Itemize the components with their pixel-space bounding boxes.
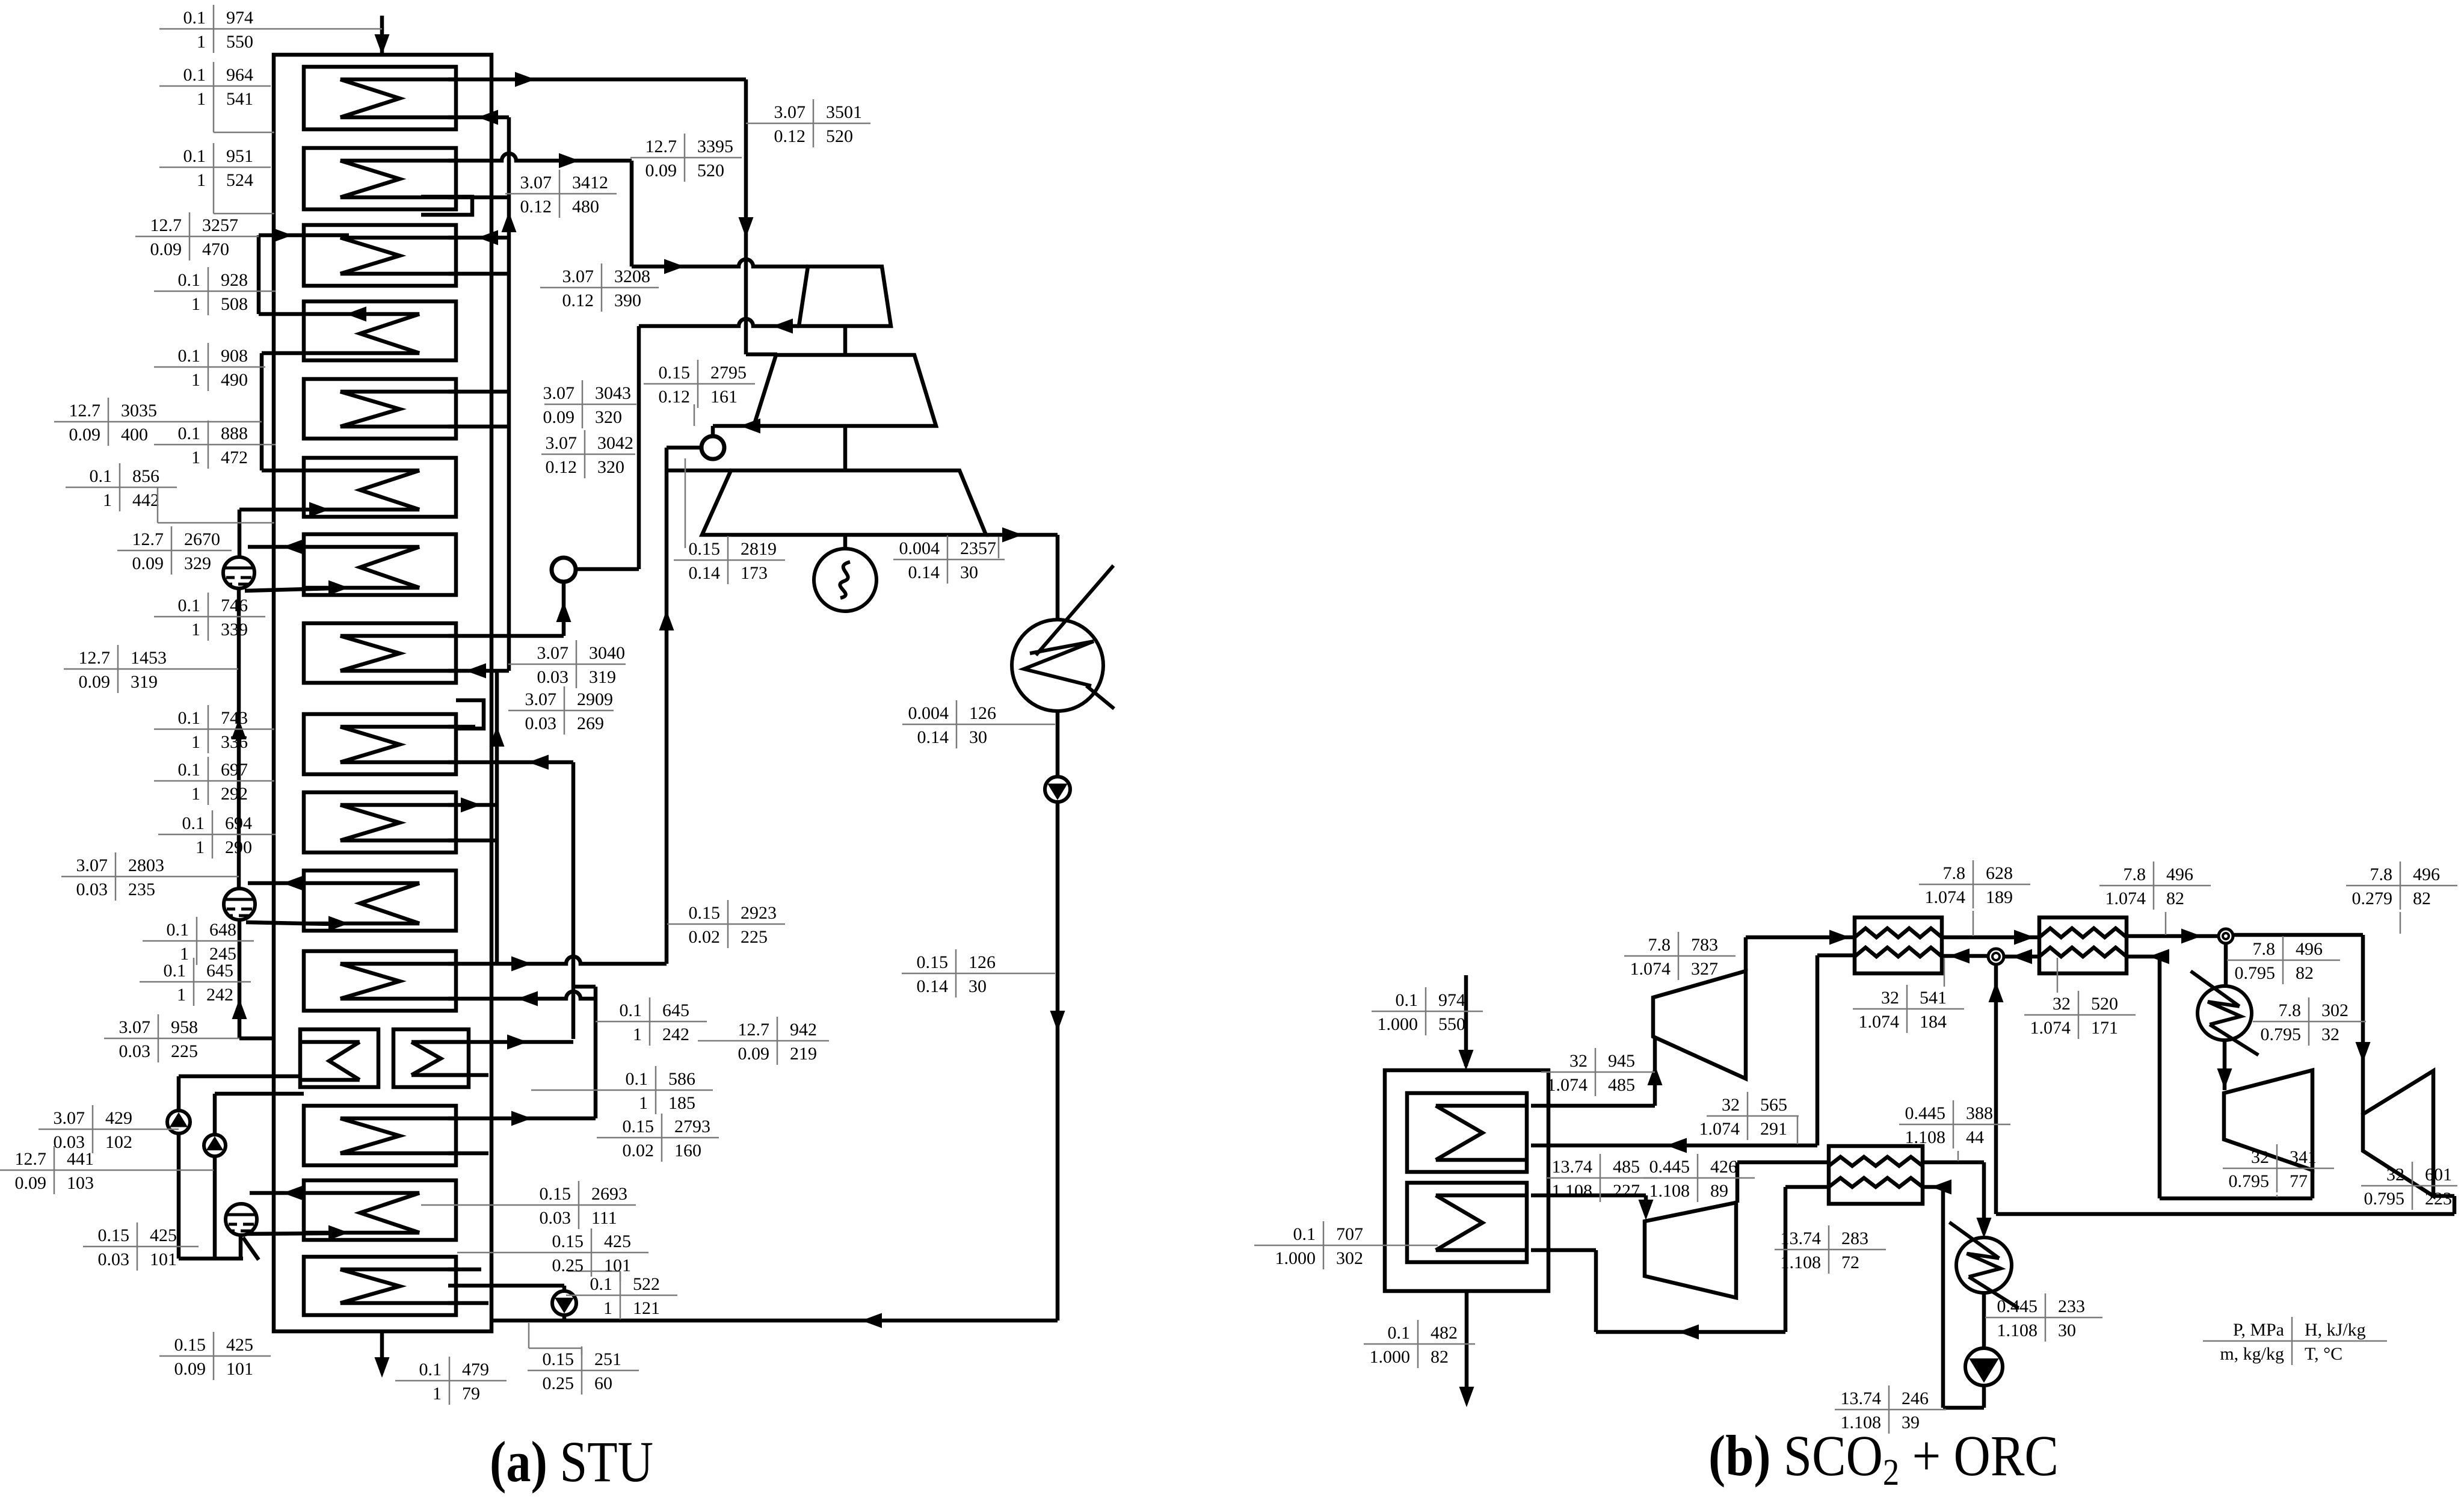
svg-text:628: 628 bbox=[1986, 863, 2013, 883]
svg-text:470: 470 bbox=[202, 239, 229, 259]
svg-text:520: 520 bbox=[697, 161, 724, 180]
svg-text:0.445: 0.445 bbox=[1649, 1157, 1690, 1177]
svg-text:1: 1 bbox=[633, 1025, 642, 1044]
svg-text:0.12: 0.12 bbox=[659, 387, 691, 407]
svg-text:0.004: 0.004 bbox=[899, 538, 940, 558]
svg-text:0.25: 0.25 bbox=[552, 1256, 584, 1275]
svg-text:482: 482 bbox=[1431, 1323, 1458, 1343]
svg-text:964: 964 bbox=[226, 65, 253, 85]
svg-text:32: 32 bbox=[2251, 1147, 2269, 1167]
svg-text:1: 1 bbox=[103, 490, 112, 510]
svg-text:0.15: 0.15 bbox=[659, 363, 691, 383]
svg-text:7.8: 7.8 bbox=[2124, 865, 2146, 884]
svg-text:541: 541 bbox=[1920, 988, 1947, 1008]
svg-text:3501: 3501 bbox=[826, 102, 862, 122]
svg-text:0.02: 0.02 bbox=[689, 927, 721, 947]
svg-text:H, kJ/kg: H, kJ/kg bbox=[2305, 1320, 2366, 1340]
svg-text:945: 945 bbox=[1608, 1051, 1635, 1071]
svg-text:0.1: 0.1 bbox=[167, 920, 189, 940]
svg-text:339: 339 bbox=[221, 620, 248, 640]
svg-text:173: 173 bbox=[741, 563, 768, 583]
svg-text:2909: 2909 bbox=[577, 689, 613, 709]
svg-text:1.000: 1.000 bbox=[1378, 1014, 1418, 1034]
svg-text:0.15: 0.15 bbox=[552, 1231, 584, 1251]
svg-text:32: 32 bbox=[1881, 988, 1899, 1008]
svg-text:0.03: 0.03 bbox=[537, 667, 569, 687]
svg-text:783: 783 bbox=[1691, 935, 1718, 955]
svg-text:290: 290 bbox=[225, 837, 252, 857]
svg-text:(a) STU: (a) STU bbox=[490, 1429, 653, 1494]
svg-text:0.15: 0.15 bbox=[98, 1225, 130, 1245]
svg-text:0.1: 0.1 bbox=[1293, 1224, 1316, 1244]
svg-text:0.445: 0.445 bbox=[1997, 1296, 2038, 1316]
svg-text:12.7: 12.7 bbox=[15, 1149, 47, 1169]
svg-text:242: 242 bbox=[206, 985, 233, 1005]
svg-text:0.15: 0.15 bbox=[689, 539, 721, 559]
svg-text:3.07: 3.07 bbox=[54, 1108, 85, 1128]
svg-text:3.07: 3.07 bbox=[119, 1017, 151, 1037]
svg-text:101: 101 bbox=[604, 1256, 631, 1275]
svg-text:1.074: 1.074 bbox=[2030, 1018, 2071, 1038]
svg-text:1.074: 1.074 bbox=[1859, 1012, 1900, 1032]
svg-text:223: 223 bbox=[2425, 1189, 2452, 1209]
svg-text:225: 225 bbox=[171, 1041, 198, 1061]
svg-text:541: 541 bbox=[226, 89, 253, 109]
svg-text:2819: 2819 bbox=[741, 539, 777, 559]
svg-text:m, kg/kg: m, kg/kg bbox=[2220, 1344, 2284, 1364]
svg-text:1: 1 bbox=[191, 784, 200, 804]
svg-text:0.09: 0.09 bbox=[132, 553, 164, 573]
svg-text:1.108: 1.108 bbox=[1781, 1253, 1822, 1272]
svg-text:7.8: 7.8 bbox=[2279, 1000, 2302, 1020]
svg-text:246: 246 bbox=[1902, 1389, 1929, 1408]
svg-text:320: 320 bbox=[595, 407, 622, 427]
svg-text:13.74: 13.74 bbox=[1552, 1157, 1593, 1177]
svg-text:472: 472 bbox=[221, 448, 248, 467]
svg-text:0.03: 0.03 bbox=[119, 1041, 151, 1061]
svg-text:82: 82 bbox=[2166, 889, 2184, 908]
svg-text:77: 77 bbox=[2290, 1171, 2308, 1191]
svg-text:485: 485 bbox=[1608, 1075, 1635, 1095]
svg-text:72: 72 bbox=[1841, 1253, 1859, 1272]
svg-text:0.795: 0.795 bbox=[2229, 1171, 2270, 1191]
svg-text:3395: 3395 bbox=[697, 137, 733, 156]
svg-text:101: 101 bbox=[226, 1359, 253, 1379]
svg-text:103: 103 bbox=[67, 1173, 94, 1193]
svg-text:425: 425 bbox=[226, 1335, 253, 1355]
svg-text:0.1: 0.1 bbox=[1396, 990, 1418, 1010]
svg-text:0.09: 0.09 bbox=[738, 1044, 770, 1064]
svg-text:645: 645 bbox=[662, 1000, 689, 1020]
svg-text:44: 44 bbox=[1966, 1127, 1984, 1147]
svg-text:319: 319 bbox=[131, 672, 158, 692]
svg-text:242: 242 bbox=[662, 1025, 689, 1044]
svg-text:856: 856 bbox=[132, 466, 159, 486]
svg-text:0.14: 0.14 bbox=[917, 727, 949, 747]
svg-text:1: 1 bbox=[191, 732, 200, 752]
svg-text:974: 974 bbox=[1438, 990, 1465, 1010]
svg-text:0.1: 0.1 bbox=[90, 466, 112, 486]
svg-text:0.15: 0.15 bbox=[543, 1349, 574, 1369]
svg-text:0.1: 0.1 bbox=[183, 65, 206, 85]
svg-text:269: 269 bbox=[577, 714, 604, 733]
svg-text:888: 888 bbox=[221, 424, 248, 443]
svg-text:1.000: 1.000 bbox=[1275, 1248, 1316, 1268]
svg-text:2693: 2693 bbox=[591, 1184, 627, 1204]
svg-text:0.1: 0.1 bbox=[183, 146, 206, 166]
svg-text:0.15: 0.15 bbox=[689, 903, 721, 923]
svg-text:908: 908 bbox=[221, 346, 248, 366]
svg-text:951: 951 bbox=[226, 146, 253, 166]
svg-text:3042: 3042 bbox=[597, 433, 633, 453]
svg-text:P, MPa: P, MPa bbox=[2233, 1320, 2284, 1340]
svg-text:1.108: 1.108 bbox=[1552, 1181, 1593, 1201]
svg-text:327: 327 bbox=[1691, 959, 1718, 979]
svg-text:227: 227 bbox=[1613, 1181, 1640, 1201]
svg-text:1: 1 bbox=[639, 1093, 648, 1113]
svg-text:441: 441 bbox=[67, 1149, 94, 1169]
svg-text:3412: 3412 bbox=[572, 173, 608, 193]
svg-text:707: 707 bbox=[1336, 1224, 1363, 1244]
svg-text:0.1: 0.1 bbox=[178, 270, 201, 290]
svg-text:0.03: 0.03 bbox=[98, 1250, 130, 1269]
svg-text:0.795: 0.795 bbox=[2364, 1189, 2405, 1209]
svg-text:82: 82 bbox=[2413, 889, 2431, 908]
svg-text:1: 1 bbox=[191, 448, 200, 467]
svg-text:426: 426 bbox=[1710, 1157, 1737, 1177]
svg-text:341: 341 bbox=[2290, 1147, 2317, 1167]
svg-text:0.279: 0.279 bbox=[2352, 889, 2393, 908]
svg-text:0.14: 0.14 bbox=[689, 563, 721, 583]
svg-text:425: 425 bbox=[150, 1225, 177, 1245]
svg-text:1.108: 1.108 bbox=[1997, 1321, 2038, 1340]
svg-text:565: 565 bbox=[1760, 1095, 1787, 1115]
svg-text:32: 32 bbox=[2321, 1025, 2339, 1044]
svg-text:0.15: 0.15 bbox=[917, 952, 949, 972]
svg-text:32: 32 bbox=[2053, 994, 2071, 1014]
svg-text:3043: 3043 bbox=[595, 383, 631, 403]
svg-text:0.795: 0.795 bbox=[2235, 963, 2276, 983]
svg-text:550: 550 bbox=[1438, 1014, 1465, 1034]
svg-text:3.07: 3.07 bbox=[76, 855, 108, 875]
svg-text:13.74: 13.74 bbox=[1781, 1228, 1822, 1248]
svg-text:219: 219 bbox=[790, 1044, 817, 1064]
svg-text:82: 82 bbox=[1431, 1347, 1449, 1367]
svg-text:171: 171 bbox=[2091, 1018, 2118, 1038]
svg-text:302: 302 bbox=[1336, 1248, 1363, 1268]
svg-text:3.07: 3.07 bbox=[546, 433, 577, 453]
svg-text:111: 111 bbox=[591, 1208, 617, 1228]
svg-text:7.8: 7.8 bbox=[2370, 865, 2393, 884]
svg-text:0.12: 0.12 bbox=[562, 291, 594, 310]
svg-text:3208: 3208 bbox=[614, 267, 650, 286]
svg-text:12.7: 12.7 bbox=[738, 1020, 770, 1040]
svg-text:0.1: 0.1 bbox=[590, 1274, 613, 1294]
svg-text:485: 485 bbox=[1613, 1157, 1640, 1177]
svg-text:12.7: 12.7 bbox=[79, 648, 111, 668]
svg-text:490: 490 bbox=[221, 370, 248, 390]
svg-text:524: 524 bbox=[226, 170, 253, 190]
svg-text:30: 30 bbox=[2058, 1321, 2076, 1340]
svg-text:12.7: 12.7 bbox=[150, 215, 182, 235]
svg-text:0.1: 0.1 bbox=[178, 760, 201, 780]
svg-text:235: 235 bbox=[128, 880, 155, 899]
svg-text:442: 442 bbox=[132, 490, 159, 510]
svg-text:7.8: 7.8 bbox=[1943, 863, 1966, 883]
svg-text:161: 161 bbox=[710, 387, 738, 407]
svg-text:601: 601 bbox=[2425, 1165, 2452, 1185]
svg-text:0.03: 0.03 bbox=[540, 1208, 571, 1228]
svg-text:1: 1 bbox=[191, 294, 200, 314]
svg-text:743: 743 bbox=[221, 708, 248, 728]
svg-text:0.15: 0.15 bbox=[540, 1184, 571, 1204]
svg-text:12.7: 12.7 bbox=[69, 401, 101, 421]
svg-text:1: 1 bbox=[177, 985, 186, 1005]
svg-text:479: 479 bbox=[462, 1360, 489, 1379]
svg-text:0.25: 0.25 bbox=[543, 1373, 574, 1393]
svg-text:30: 30 bbox=[969, 727, 987, 747]
svg-text:496: 496 bbox=[2166, 865, 2193, 884]
svg-text:283: 283 bbox=[1841, 1228, 1868, 1248]
svg-text:3.07: 3.07 bbox=[543, 383, 575, 403]
svg-text:1: 1 bbox=[197, 32, 206, 52]
svg-text:0.03: 0.03 bbox=[76, 880, 108, 899]
svg-text:233: 233 bbox=[2058, 1296, 2085, 1316]
svg-text:0.004: 0.004 bbox=[908, 703, 949, 723]
svg-text:0.09: 0.09 bbox=[174, 1359, 206, 1379]
svg-text:0.02: 0.02 bbox=[623, 1141, 654, 1160]
svg-text:496: 496 bbox=[2413, 865, 2440, 884]
svg-text:2923: 2923 bbox=[741, 903, 777, 923]
svg-text:480: 480 bbox=[572, 197, 599, 217]
svg-text:400: 400 bbox=[121, 425, 148, 445]
svg-text:0.15: 0.15 bbox=[174, 1335, 206, 1355]
svg-text:3.07: 3.07 bbox=[520, 173, 552, 193]
svg-text:189: 189 bbox=[1986, 887, 2013, 907]
svg-text:0.15: 0.15 bbox=[623, 1117, 654, 1136]
svg-text:13.74: 13.74 bbox=[1841, 1389, 1882, 1408]
svg-text:0.12: 0.12 bbox=[546, 457, 577, 477]
svg-text:697: 697 bbox=[221, 760, 248, 780]
svg-text:3.07: 3.07 bbox=[562, 267, 594, 286]
svg-text:0.1: 0.1 bbox=[178, 708, 201, 728]
svg-text:520: 520 bbox=[826, 126, 853, 146]
svg-text:0.1: 0.1 bbox=[164, 961, 186, 981]
svg-text:645: 645 bbox=[206, 961, 233, 981]
svg-text:T, °C: T, °C bbox=[2305, 1344, 2342, 1364]
svg-text:30: 30 bbox=[969, 976, 987, 996]
svg-text:0.1: 0.1 bbox=[178, 346, 201, 366]
svg-text:3040: 3040 bbox=[589, 643, 625, 663]
svg-text:3257: 3257 bbox=[202, 215, 238, 235]
svg-text:2793: 2793 bbox=[674, 1117, 710, 1136]
svg-text:1.074: 1.074 bbox=[1925, 887, 1966, 907]
svg-text:0.1: 0.1 bbox=[183, 8, 206, 28]
svg-text:0.14: 0.14 bbox=[917, 976, 949, 996]
svg-text:429: 429 bbox=[105, 1108, 132, 1128]
svg-text:550: 550 bbox=[226, 32, 253, 52]
svg-text:1.108: 1.108 bbox=[1649, 1181, 1690, 1201]
svg-text:79: 79 bbox=[462, 1384, 480, 1404]
svg-text:126: 126 bbox=[969, 703, 996, 723]
svg-text:1.074: 1.074 bbox=[2105, 889, 2146, 908]
svg-text:425: 425 bbox=[604, 1231, 631, 1251]
svg-text:0.12: 0.12 bbox=[774, 126, 806, 146]
svg-text:0.1: 0.1 bbox=[419, 1360, 442, 1379]
svg-text:3.07: 3.07 bbox=[525, 689, 557, 709]
svg-text:1: 1 bbox=[197, 89, 206, 109]
svg-text:0.03: 0.03 bbox=[525, 714, 557, 733]
svg-text:1: 1 bbox=[196, 837, 205, 857]
svg-text:2357: 2357 bbox=[960, 538, 996, 558]
svg-text:2803: 2803 bbox=[128, 855, 164, 875]
svg-text:0.09: 0.09 bbox=[150, 239, 182, 259]
svg-text:32: 32 bbox=[2386, 1165, 2404, 1185]
svg-text:942: 942 bbox=[790, 1020, 817, 1040]
svg-text:3035: 3035 bbox=[121, 401, 157, 421]
svg-text:0.1: 0.1 bbox=[620, 1000, 642, 1020]
svg-text:32: 32 bbox=[1722, 1095, 1740, 1115]
svg-text:1.074: 1.074 bbox=[1547, 1075, 1588, 1095]
svg-text:958: 958 bbox=[171, 1017, 198, 1037]
svg-text:1: 1 bbox=[433, 1384, 442, 1404]
svg-text:0.09: 0.09 bbox=[79, 672, 111, 692]
svg-text:320: 320 bbox=[597, 457, 624, 477]
svg-text:496: 496 bbox=[2296, 939, 2323, 959]
svg-text:0.09: 0.09 bbox=[69, 425, 101, 445]
svg-text:121: 121 bbox=[633, 1298, 660, 1318]
svg-text:520: 520 bbox=[2091, 994, 2118, 1014]
svg-text:1: 1 bbox=[603, 1298, 612, 1318]
svg-text:89: 89 bbox=[1710, 1181, 1728, 1201]
svg-text:30: 30 bbox=[960, 562, 978, 582]
svg-text:292: 292 bbox=[221, 784, 248, 804]
svg-text:102: 102 bbox=[105, 1132, 132, 1152]
svg-text:0.795: 0.795 bbox=[2261, 1025, 2302, 1044]
svg-text:1: 1 bbox=[197, 170, 206, 190]
svg-text:0.445: 0.445 bbox=[1905, 1103, 1946, 1123]
svg-text:388: 388 bbox=[1966, 1103, 1993, 1123]
svg-text:586: 586 bbox=[668, 1069, 695, 1089]
svg-text:2670: 2670 bbox=[184, 529, 220, 549]
svg-text:101: 101 bbox=[150, 1250, 177, 1269]
svg-text:12.7: 12.7 bbox=[645, 137, 677, 156]
svg-text:928: 928 bbox=[221, 270, 248, 290]
svg-text:746: 746 bbox=[221, 596, 248, 615]
svg-text:7.8: 7.8 bbox=[2253, 939, 2276, 959]
svg-text:12.7: 12.7 bbox=[132, 529, 164, 549]
svg-text:1: 1 bbox=[191, 370, 200, 390]
svg-text:184: 184 bbox=[1920, 1012, 1947, 1032]
svg-text:60: 60 bbox=[594, 1373, 612, 1393]
svg-text:2795: 2795 bbox=[710, 363, 747, 383]
svg-text:1.000: 1.000 bbox=[1370, 1347, 1411, 1367]
svg-text:0.14: 0.14 bbox=[908, 562, 940, 582]
svg-text:0.1: 0.1 bbox=[178, 596, 201, 615]
svg-text:336: 336 bbox=[221, 732, 248, 752]
svg-text:0.1: 0.1 bbox=[182, 813, 205, 833]
svg-text:82: 82 bbox=[2296, 963, 2314, 983]
svg-text:0.1: 0.1 bbox=[626, 1069, 648, 1089]
svg-text:1.074: 1.074 bbox=[1699, 1119, 1740, 1139]
svg-text:32: 32 bbox=[1569, 1051, 1588, 1071]
svg-text:508: 508 bbox=[221, 294, 248, 314]
svg-text:974: 974 bbox=[226, 8, 253, 28]
svg-text:302: 302 bbox=[2321, 1000, 2348, 1020]
svg-text:7.8: 7.8 bbox=[1648, 935, 1671, 955]
svg-text:0.09: 0.09 bbox=[543, 407, 575, 427]
svg-text:225: 225 bbox=[741, 927, 768, 947]
svg-text:319: 319 bbox=[589, 667, 616, 687]
svg-text:185: 185 bbox=[668, 1093, 695, 1113]
svg-text:3.07: 3.07 bbox=[774, 102, 806, 122]
svg-text:160: 160 bbox=[674, 1141, 701, 1160]
svg-text:648: 648 bbox=[209, 920, 236, 940]
svg-text:1: 1 bbox=[191, 620, 200, 640]
svg-text:0.1: 0.1 bbox=[1388, 1323, 1411, 1343]
svg-text:390: 390 bbox=[614, 291, 641, 310]
svg-text:694: 694 bbox=[225, 813, 252, 833]
svg-text:0.1: 0.1 bbox=[178, 424, 201, 443]
svg-text:291: 291 bbox=[1760, 1119, 1787, 1139]
svg-text:126: 126 bbox=[969, 952, 996, 972]
svg-text:3.07: 3.07 bbox=[537, 643, 569, 663]
svg-text:251: 251 bbox=[594, 1349, 621, 1369]
svg-text:0.12: 0.12 bbox=[520, 197, 552, 217]
svg-text:1.074: 1.074 bbox=[1630, 959, 1671, 979]
svg-text:329: 329 bbox=[184, 553, 211, 573]
svg-text:0.09: 0.09 bbox=[15, 1173, 47, 1193]
svg-text:0.09: 0.09 bbox=[645, 161, 677, 180]
svg-text:522: 522 bbox=[633, 1274, 660, 1294]
svg-text:1453: 1453 bbox=[131, 648, 167, 668]
svg-text:1.108: 1.108 bbox=[1905, 1127, 1946, 1147]
